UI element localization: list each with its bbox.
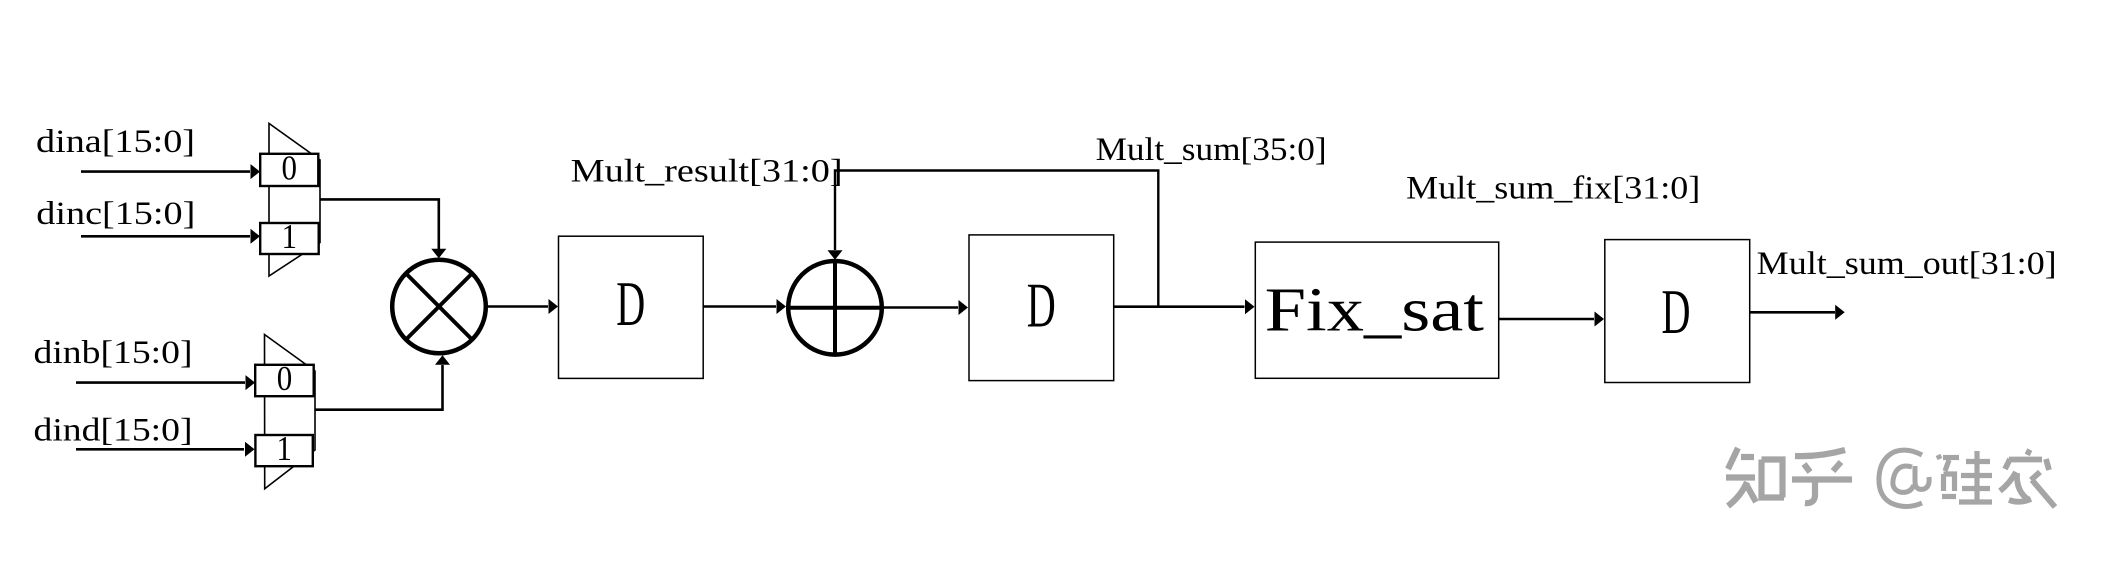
feedback wire Mult_sum	[835, 171, 1158, 307]
watermark char 硅	[1938, 451, 1992, 502]
register D2 box	[969, 235, 1114, 381]
svg-text:dind[15:0]: dind[15:0]	[34, 412, 193, 448]
svg-text:D: D	[616, 268, 645, 339]
wire dinb input	[76, 381, 245, 384]
register D3 box	[1605, 240, 1750, 383]
multiplier X	[406, 274, 472, 340]
svg-text:1: 1	[282, 217, 298, 256]
watermark char @	[1879, 450, 1929, 506]
adder plus	[788, 261, 882, 355]
svg-text:Mult_sum_fix[31:0]: Mult_sum_fix[31:0]	[1406, 171, 1700, 207]
wire adder to D2	[884, 306, 959, 309]
wire Fix_sat to D3	[1499, 318, 1594, 321]
wire M1 output to multiplier	[320, 199, 439, 249]
wire multiplier to D1	[488, 305, 549, 308]
svg-text:D: D	[1662, 276, 1691, 347]
box Fix_sat	[1255, 242, 1498, 378]
svg-text:Mult_sum_out[31:0]: Mult_sum_out[31:0]	[1757, 246, 2057, 282]
watermark char 知	[1726, 448, 1784, 506]
svg-text:Mult_sum[35:0]: Mult_sum[35:0]	[1096, 132, 1327, 168]
svg-text:dinc[15:0]: dinc[15:0]	[36, 196, 195, 232]
register D1 box	[559, 236, 704, 378]
svg-text:dinb[15:0]: dinb[15:0]	[34, 335, 193, 371]
mux M1 select box 0	[260, 154, 318, 186]
watermark char 乎	[1792, 450, 1852, 503]
mux M2 select box 0	[255, 365, 314, 396]
mux M1 trapezoid	[269, 123, 320, 276]
watermark char 农	[2000, 451, 2055, 507]
wire dind input	[76, 448, 244, 451]
mux M1 select box 1	[260, 223, 319, 254]
multiplier circle	[392, 260, 486, 354]
svg-text:D: D	[1027, 270, 1056, 341]
mux M2 select box 1	[255, 435, 312, 466]
wire dinc input	[81, 235, 250, 238]
svg-text:dina[15:0]: dina[15:0]	[36, 124, 195, 160]
wire M2 output to multiplier	[315, 365, 443, 410]
wire D2 to Fix_sat	[1114, 305, 1245, 308]
wire D3 output	[1750, 311, 1835, 314]
svg-text:1: 1	[276, 429, 292, 468]
svg-text:Fix_sat: Fix_sat	[1265, 276, 1484, 344]
svg-text:0: 0	[277, 359, 293, 398]
watermark 知乎 @硅农	[1726, 448, 2055, 507]
svg-text:Mult_result[31:0]: Mult_result[31:0]	[571, 154, 843, 190]
adder circle	[788, 261, 882, 355]
wire D1 to adder	[703, 305, 776, 308]
mux M2 trapezoid	[265, 335, 316, 489]
wire dina input	[81, 170, 250, 173]
svg-text:0: 0	[282, 148, 298, 187]
